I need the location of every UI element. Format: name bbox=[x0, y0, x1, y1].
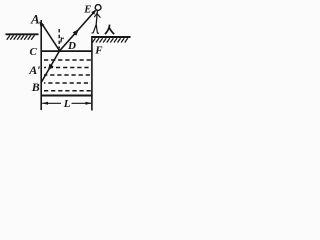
svg-text:A′: A′ bbox=[28, 63, 40, 77]
dimension arrow left part bbox=[42, 102, 61, 104]
water dashed line row 3 bbox=[44, 74, 91, 76]
person arm right bbox=[97, 14, 100, 18]
ground hatching right bbox=[92, 38, 128, 42]
svg-text:L: L bbox=[63, 98, 71, 110]
water dashed line row 4 bbox=[44, 82, 91, 84]
person arm left bbox=[94, 13, 97, 17]
dimension arrow right part bbox=[72, 102, 92, 104]
svg-text:D: D bbox=[67, 40, 76, 52]
svg-text:r: r bbox=[60, 35, 64, 46]
svg-text:B: B bbox=[31, 80, 40, 94]
character ren (person) drawn as strokes bbox=[105, 25, 110, 34]
background bbox=[0, 0, 133, 116]
ground hatching left bbox=[7, 35, 35, 40]
person leg right bbox=[96, 25, 99, 34]
ground line right bbox=[92, 36, 131, 38]
arrowhead mid ray D-B bbox=[48, 64, 54, 71]
water dashed line row 2 bbox=[44, 67, 91, 69]
tank right wall (extends below bottom as dimension extension line) bbox=[91, 36, 93, 111]
tank left wall (top is point A, extends below bottom as dimension extension line) bbox=[40, 20, 42, 110]
ray D to A bbox=[42, 23, 60, 51]
person stick figure: head bbox=[95, 5, 101, 11]
person leg left bbox=[92, 25, 97, 34]
vertex ink blob at D bbox=[58, 49, 61, 52]
tank bottom bbox=[41, 95, 93, 97]
water dashed line row 5 bbox=[44, 90, 91, 92]
svg-text:C: C bbox=[30, 46, 38, 58]
person body bbox=[96, 10, 97, 24]
arrowhead at E end bbox=[91, 10, 96, 15]
refracted ray D to B bbox=[41, 51, 60, 83]
dimension arrowhead right bbox=[86, 102, 92, 105]
ground line left bbox=[6, 33, 39, 35]
svg-text:A: A bbox=[30, 11, 40, 26]
arrowhead mid ray D-E bbox=[73, 29, 79, 36]
ray D to E bbox=[60, 10, 96, 50]
normal (dashed) at D bbox=[58, 29, 60, 49]
svg-text:F: F bbox=[94, 45, 103, 57]
arrowhead at A bbox=[39, 22, 44, 28]
dimension arrowhead left bbox=[42, 102, 48, 105]
water surface line C-D-F bbox=[42, 50, 93, 52]
svg-text:E: E bbox=[83, 4, 91, 15]
water dashed line row 1 bbox=[44, 59, 91, 61]
